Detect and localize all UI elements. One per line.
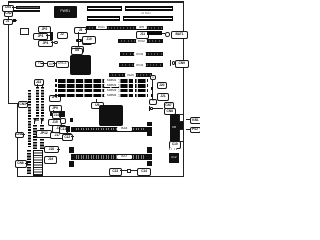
SIMM socket row 2 <box>58 84 147 88</box>
arrow from CN4 <box>22 134 25 135</box>
keyboard callout CN8 <box>164 108 177 115</box>
bottom chain callout CN13 <box>109 168 122 176</box>
ISA slot B (bottom, black) <box>71 154 152 160</box>
PCI slot row 6 (black) <box>119 63 163 67</box>
callout CN2 <box>4 11 13 17</box>
callout J30 <box>60 118 66 124</box>
left columns label callout J23 <box>34 79 44 86</box>
board outline left step <box>8 103 18 104</box>
left edge callout CN4 <box>15 132 25 139</box>
callout JP9 <box>49 105 62 113</box>
header column 4 <box>33 125 37 149</box>
SIMM socket row 3 <box>58 89 147 93</box>
center callout column: callout JP8 <box>49 95 61 102</box>
label on row 5 <box>134 52 146 56</box>
ISA slot 1 segment a <box>87 6 122 11</box>
board outline bottom edge <box>17 176 184 177</box>
rounded icon after row 7 <box>150 75 156 80</box>
header column 1 (tall) <box>28 90 31 147</box>
ISA slot 2 segment a <box>87 16 120 21</box>
ISA slot 2 segment b <box>123 16 173 21</box>
callout BAT1 <box>171 31 188 39</box>
oscillator chain box Y1 <box>35 61 44 67</box>
callout JP4 <box>38 40 53 47</box>
callout J15 <box>48 119 62 126</box>
ISA slot 1 segment b <box>125 6 173 11</box>
callout OSC1 <box>56 61 70 68</box>
slot A right square above <box>147 122 152 126</box>
callout JP13 <box>62 133 72 141</box>
wire U3 to callout <box>53 63 56 64</box>
label on slot B <box>117 155 132 160</box>
right outside callout KBD <box>190 117 202 124</box>
pin ticks row 5 <box>121 53 162 55</box>
jumper JP6 icon <box>76 39 82 43</box>
wire chain 2 <box>131 170 137 171</box>
PCI slot row 3 (black) <box>86 26 163 30</box>
connector circle right of row 6 <box>172 61 176 65</box>
chipset U2 (big black chip) <box>99 105 123 126</box>
label on row 4 <box>136 39 147 43</box>
dark gap between DIN connectors <box>179 122 184 129</box>
jumper block at J1 <box>13 19 16 22</box>
callout CN10 (dark text) <box>169 141 181 149</box>
arrow J18 <box>57 149 60 150</box>
battery connector circle <box>165 32 170 37</box>
jumper small box <box>127 169 132 173</box>
transistor Q1 (candle icon) <box>33 118 37 125</box>
SIMM left clip 1 <box>55 79 57 82</box>
jumper icon dot <box>150 107 153 110</box>
slot A right square below <box>147 132 152 136</box>
tiny callout above IDE <box>149 99 157 105</box>
callout J5 keyboard lock <box>74 27 87 34</box>
VESA slot (white outlined) <box>147 31 162 35</box>
callout CN1 (top left, printer port label) <box>2 5 14 12</box>
PCI slot row 7 (black) <box>109 73 152 77</box>
slot A left end cap <box>66 126 70 132</box>
oscillator chain box U3 <box>47 61 55 67</box>
pin ticks row 4 <box>119 40 162 42</box>
ISA slot A (bottom, black) <box>71 127 153 132</box>
board outline right edge <box>183 2 184 177</box>
DIN connector lower (mouse) <box>179 129 184 142</box>
wire JP6 down to JP7 <box>77 42 80 46</box>
jumper tick b <box>151 94 154 97</box>
SIMM left clip 3 <box>55 89 57 92</box>
board outline left edge lower <box>17 103 18 177</box>
header column 3 <box>41 87 44 121</box>
chip U5 (small black) <box>59 111 65 117</box>
SIMM socket row 4 <box>58 94 147 98</box>
label on row 7 <box>125 73 136 77</box>
wire J5 down to JP6 <box>77 32 80 39</box>
header column 1b <box>27 150 31 174</box>
callout J19 <box>44 156 57 164</box>
callout JP3 with arrow <box>33 33 48 40</box>
small marks under CN10 <box>169 148 177 150</box>
arrow CN12 <box>71 136 74 137</box>
callout J17 <box>50 132 65 139</box>
callout CN9 <box>175 60 189 68</box>
wire jumper to CN8 <box>153 107 163 110</box>
CPU U1 (big black chip) <box>70 55 91 75</box>
keyboard controller block (black) <box>170 114 179 141</box>
label on slot A <box>117 127 132 131</box>
callout J1 <box>3 19 13 26</box>
small print label under slot 1 <box>141 12 153 15</box>
callout U8 above CPU <box>71 48 83 55</box>
slot B right square below <box>147 161 152 166</box>
connector bar serial port (top edge) <box>13 10 40 12</box>
mouse connector outline box <box>20 28 30 35</box>
arrow KBD <box>186 119 190 120</box>
pin ticks row 7 <box>110 74 151 76</box>
SIMM3 label <box>104 89 119 92</box>
callout JP20 <box>157 82 168 89</box>
wire above column 3 <box>41 84 44 88</box>
callout JP21 <box>157 93 169 101</box>
wire Y1 to U3 <box>41 63 47 64</box>
power connector PS1 (black box with white text) <box>54 6 78 18</box>
SIMM right clip 3 <box>147 89 149 92</box>
wire above column 2 <box>36 84 39 88</box>
jumper stem <box>16 20 18 21</box>
wire to battery connector <box>162 33 165 34</box>
PCI slot row 5 (black) <box>120 52 163 56</box>
wire chain <box>120 170 127 171</box>
leader line above U9 <box>95 99 98 103</box>
stem of J23 <box>37 84 38 87</box>
regulator bar VR1 <box>50 32 53 40</box>
callout J10 <box>82 36 96 44</box>
stem below JP9 <box>52 110 55 113</box>
SIMM right clip 4 <box>147 94 149 97</box>
SIMM left clip 2 <box>55 84 57 87</box>
pin ticks slot B <box>74 155 146 158</box>
SIMM right clip 2 <box>147 84 149 87</box>
callout JP7 <box>71 46 84 53</box>
arrow JP3 <box>46 35 50 36</box>
fan connector icon <box>57 32 68 39</box>
DIN connector upper (keyboard) <box>179 114 184 123</box>
SIMM right clip 1 <box>147 79 149 82</box>
transistor Q2 (candle icon) <box>40 118 44 125</box>
slot B right square above <box>147 147 152 153</box>
keyboard callout CN7 <box>164 102 174 109</box>
wire JP4 to jumper <box>51 42 54 43</box>
arrow from CN3 <box>26 103 28 104</box>
label on row 6 <box>134 63 146 67</box>
front panel ladder header <box>33 150 43 176</box>
memory bank right wire <box>152 80 153 99</box>
SIMM left clip 4 <box>55 94 57 97</box>
slot B left square above <box>69 147 74 154</box>
jumper icon right of JP4 <box>54 41 58 45</box>
arrow from CN6 <box>25 163 28 164</box>
callout JP6 <box>82 38 92 45</box>
stub wire right of row 6 <box>170 60 171 66</box>
right outside callout PS2 <box>190 127 201 134</box>
jumper tick a <box>151 87 154 91</box>
callout J18 left of slot B <box>44 146 59 153</box>
mid callout JP12 <box>36 130 52 138</box>
SIMM1 label <box>104 79 119 82</box>
pin ticks slot A <box>74 128 146 131</box>
SIMM4 label <box>104 94 119 97</box>
SIMM2 label <box>104 84 119 87</box>
label on row 3 <box>96 26 107 30</box>
connector bar parallel port (top edge) <box>16 6 40 9</box>
bottom chain callout CN14 <box>137 168 151 176</box>
small jumper under JP9 <box>50 112 52 116</box>
board outline top edge <box>8 1 184 3</box>
callout J16 <box>52 125 66 133</box>
arrow PS2 <box>186 129 190 130</box>
wire J5 to slot row <box>85 29 88 30</box>
header column 5 <box>40 125 44 149</box>
pin ticks row 3 <box>87 27 162 29</box>
wire from CN1 to port bars <box>12 7 16 8</box>
callout J11 <box>136 31 149 39</box>
bottom-left callout CN6 <box>15 160 27 168</box>
SIMM socket row 1 <box>58 79 147 83</box>
jumper icon left of CN8 <box>149 106 150 111</box>
callout J14 <box>52 112 61 119</box>
callout CN11 left of slot A <box>59 126 69 134</box>
white gap in memory rows <box>133 79 135 99</box>
label on row 3 right <box>136 26 147 30</box>
callout CN12 below slot A <box>62 134 73 141</box>
pin ticks row 6 <box>120 64 162 66</box>
callout JP2 <box>38 26 51 33</box>
step corner callout CN3 <box>18 101 29 109</box>
flash chip (black box white text) <box>169 153 179 163</box>
slot B left square below <box>69 161 74 167</box>
header column 2 <box>36 87 39 121</box>
board outline left edge upper <box>8 2 9 104</box>
callout U9 (chipset label) <box>91 102 105 110</box>
jumper above slot A <box>70 118 73 122</box>
PCI slot row 4 (black) <box>118 39 164 43</box>
